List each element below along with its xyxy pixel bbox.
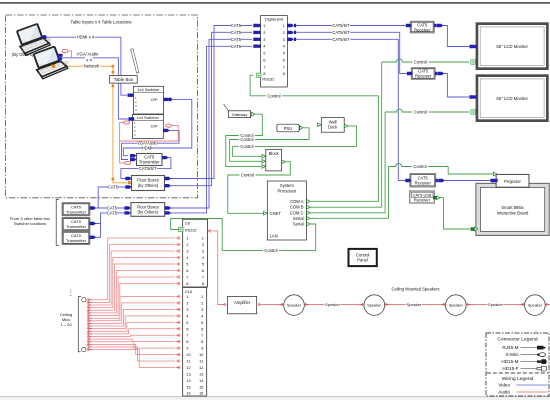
svg-text:System: System — [280, 183, 294, 188]
audio DSP C8 — [183, 219, 208, 287]
svg-text:13: 13 — [199, 371, 204, 376]
svg-text:10: 10 — [199, 352, 204, 357]
wall dock — [321, 118, 344, 133]
wire VGA/Audio x 4 (laptop 2 to switcher 2) — [63, 52, 129, 119]
svg-text:CAT5: CAT5 — [231, 44, 242, 49]
wire ceiling mic 3 — [87, 251, 175, 307]
svg-text:HDMI: HDMI — [142, 146, 153, 151]
svg-text:RS232: RS232 — [262, 77, 274, 82]
svg-text:Receiver: Receiver — [414, 198, 431, 203]
wire speaker 4 stub — [545, 304, 549, 306]
svg-text:Interactive Board: Interactive Board — [497, 210, 529, 215]
connector: monitor 1 video in — [469, 45, 475, 48]
wire switcher2 audio out (red) — [120, 126, 179, 141]
CAT5 transmitter T2 — [62, 218, 89, 231]
switcher U1 (1x4 Switcher) — [134, 86, 164, 114]
svg-text:Network: Network — [84, 64, 100, 69]
svg-text:C8: C8 — [185, 221, 191, 226]
svg-text:Table Box: Table Box — [114, 77, 134, 82]
laptop 1 — [14, 20, 53, 56]
svg-text:COM A: COM A — [290, 199, 304, 204]
connector: transmitters T1-T3 out — [90, 206, 96, 209]
label: Ceiling Mics 1-20 — [60, 312, 72, 327]
wire control: COM C to LCD monitor 2 — [310, 109, 469, 213]
wire audio riser to CAT5 transmitter (red) — [120, 123, 125, 164]
svg-text:(by Others): (by Others) — [138, 210, 159, 215]
connector: floor box 2 right — [165, 206, 171, 209]
connector: projector video in — [490, 179, 496, 182]
svg-text:Speaker: Speaker — [449, 304, 464, 308]
connector: processor COM/serial pins (green) — [307, 199, 310, 226]
wire floor box 2 out A to matrix in 3 — [168, 37, 252, 208]
wire control: Serial 2 to C8 RS232 — [171, 219, 316, 253]
svg-text:HD15-M: HD15-M — [501, 359, 518, 364]
svg-text:COM C: COM C — [290, 210, 304, 215]
wire speaker 3 to speaker 4 — [466, 302, 524, 307]
wire ceiling mic 13 — [87, 322, 175, 333]
svg-text:Floor Boxes: Floor Boxes — [137, 178, 159, 183]
connector: monitor 2 video in — [469, 95, 475, 98]
connector: CAT5 receiver 3 pins — [405, 179, 411, 182]
wire Network (orange, laptop 2 to floor box 1) — [55, 64, 127, 183]
svg-text:Connector Legend: Connector Legend — [497, 337, 538, 343]
svg-text:Audio: Audio — [498, 390, 510, 395]
LCD monitor 2 — [476, 74, 549, 122]
connector: floor box 2 left — [124, 206, 130, 209]
svg-text:Floor Boxes: Floor Boxes — [137, 204, 159, 209]
svg-text:O/P: O/P — [151, 124, 158, 129]
switcher U2 (1x4 Switcher) — [132, 115, 163, 139]
connector: CAT5 transmitter inputs — [130, 154, 136, 157]
connector: laptop2 VGA pair — [58, 54, 63, 60]
wire ceiling mic 2 — [87, 245, 175, 305]
svg-text:Receiver: Receiver — [415, 180, 432, 185]
amplifier — [228, 296, 257, 313]
svg-text:PSU: PSU — [284, 126, 293, 131]
CAT5 transmitter T3 — [62, 232, 89, 245]
svg-text:Control: Control — [356, 252, 370, 257]
CAT5 receiver 2 — [411, 68, 435, 79]
wire switcher1 O/P HDMI down to CAT5 transmitter — [123, 99, 192, 155]
svg-text:CAT5/6/T: CAT5/6/T — [139, 166, 157, 171]
legend divider — [487, 372, 549, 374]
gateway — [224, 104, 251, 118]
svg-text:Receiver: Receiver — [414, 27, 431, 32]
svg-text:CAT5: CAT5 — [107, 210, 118, 215]
mic bracket — [78, 297, 81, 352]
svg-text:Transmitter: Transmitter — [139, 160, 160, 165]
svg-text:CAT5: CAT5 — [108, 185, 119, 190]
matrix switch (Digital 8x8) — [261, 16, 288, 87]
svg-text:CAT5: CAT5 — [231, 30, 242, 35]
bracket for 3 transmitters — [56, 200, 59, 246]
connector: CAT5 transmitter out — [162, 156, 168, 159]
svg-text:Control: Control — [240, 144, 253, 149]
laptop 2 — [31, 43, 71, 80]
legend row HD15-F — [502, 366, 546, 371]
table box — [110, 76, 138, 84]
wire CAT5 receiver 3 to projector (video) — [442, 180, 491, 182]
wire control: matrix RS232 to processor COM A — [250, 75, 378, 201]
svg-text:(By Others): (By Others) — [12, 52, 34, 57]
wire ceiling mic 11 — [87, 309, 175, 327]
window bottom strip — [0, 396, 550, 400]
svg-text:Speaker: Speaker — [287, 304, 302, 308]
wire ceiling mic 17 — [87, 340, 175, 348]
svg-text:Control: Control — [264, 248, 277, 253]
connector: floor box 1 left — [125, 177, 131, 180]
wire control: wall dock loop to block — [233, 126, 357, 156]
svg-text:x 4: x 4 — [86, 57, 92, 62]
svg-text:12: 12 — [186, 365, 191, 370]
wire ceiling mic 18 — [87, 343, 175, 355]
connector: switcher2 VGA in — [128, 117, 134, 120]
svg-text:Transmitter: Transmitter — [66, 209, 87, 214]
svg-text:CNET: CNET — [270, 211, 282, 216]
wire ceiling mic 15 — [87, 335, 175, 338]
connector: floor box 1 right — [165, 177, 171, 180]
CAT5 transmitter T1 — [62, 203, 89, 216]
svg-text:55" LCD Monitor: 55" LCD Monitor — [496, 44, 528, 49]
legend row S-Mini — [505, 352, 545, 357]
svg-text:Control: Control — [414, 110, 427, 115]
svg-text:RS232: RS232 — [185, 228, 197, 232]
wire ceiling mic 1 — [87, 238, 175, 301]
table box callout stick — [131, 49, 139, 73]
smart interactive board — [476, 183, 549, 235]
wire ceiling mic 5 — [87, 264, 175, 312]
wire transmitter T1 to floor box 2 in A — [94, 205, 127, 210]
system processor — [267, 181, 306, 240]
wire ceiling mic 10 — [87, 303, 175, 325]
wire switcher2 O/P VGA/Audio down to CAT5 transmitter — [122, 130, 180, 159]
connector: amplifier in/out (red) — [222, 303, 227, 306]
speaker 1 — [279, 295, 309, 316]
svg-text:Serial: Serial — [293, 216, 304, 221]
connector: laptop1 HDMI — [42, 35, 46, 39]
connector: CAT5 receiver 2 pins — [407, 72, 413, 75]
svg-text:1x4 Switcher: 1x4 Switcher — [137, 115, 160, 120]
svg-text:Speaker: Speaker — [488, 302, 504, 307]
svg-text:15: 15 — [199, 384, 204, 389]
svg-text:CAT5/6/T: CAT5/6/T — [332, 37, 350, 42]
svg-text:CAT5: CAT5 — [231, 37, 242, 42]
connector: PSU out (green) — [300, 126, 303, 130]
svg-text:CAT5/6/T: CAT5/6/T — [332, 30, 350, 35]
svg-text:Control: Control — [241, 173, 254, 178]
wire CAT5 receiver 1 to LCD monitor 1 — [440, 26, 469, 47]
wire CAT5 transmitter out to floor box 1 (CAT5/6/T) — [121, 158, 171, 179]
legend row RJ45-M — [502, 345, 545, 350]
connector: switcher1 out — [164, 98, 170, 101]
wire ceiling mic 8 — [87, 284, 175, 320]
wire ceiling mic 16 — [87, 338, 175, 342]
svg-text:COM B: COM B — [290, 205, 304, 210]
svg-text:Switcher locations: Switcher locations — [14, 221, 46, 226]
wire control: COM B to LCD monitor 1 — [310, 59, 469, 207]
wire laptop 2 audio stub (red) — [62, 49, 71, 57]
wire HDMI x 4 (laptop 1 to switcher 1) — [44, 35, 127, 96]
svg-text:Processor: Processor — [277, 188, 296, 193]
connector: board USB (green) — [471, 227, 475, 231]
svg-text:O/P: O/P — [151, 97, 158, 102]
svg-text:Gateway: Gateway — [232, 112, 248, 117]
svg-text:Receiver: Receiver — [415, 74, 432, 79]
connector: switcher2 audio in (red) — [124, 121, 130, 124]
connector: block out (green) — [282, 160, 285, 164]
svg-text:S-Mini: S-Mini — [505, 352, 518, 357]
connector: block inputs (green) — [262, 154, 265, 158]
speaker 4 — [520, 295, 550, 316]
svg-text:14: 14 — [199, 378, 204, 383]
svg-text:Control: Control — [240, 137, 253, 142]
svg-text:55" LCD Monitor: 55" LCD Monitor — [496, 96, 528, 101]
wire floor box 2 out B to matrix in 4 — [168, 44, 252, 213]
connector: wall dock left (green) — [318, 123, 321, 127]
connector: switcher2 VGA out — [163, 129, 169, 132]
svg-text:Speaker: Speaker — [528, 304, 543, 308]
mic circle bottom — [82, 347, 86, 351]
svg-text:Digital 8x8: Digital 8x8 — [265, 17, 283, 22]
wire ceiling mic 4 — [87, 258, 175, 310]
svg-text:12: 12 — [199, 365, 204, 370]
svg-text:Control: Control — [414, 60, 427, 65]
svg-text:Control: Control — [413, 164, 426, 169]
wire matrix out 2 to CAT5 receiver 2 — [294, 30, 407, 74]
connector: processor CNET (green) — [264, 211, 267, 215]
connector: matrix RS232 (green) — [257, 73, 261, 77]
svg-text:Block: Block — [269, 151, 280, 156]
connector: C8 audio out (red) — [207, 229, 212, 232]
label: From 3 other table box Switcher locations — [10, 216, 50, 226]
svg-text:Table Inputs x 4 Table Locatio: Table Inputs x 4 Table Locations — [70, 19, 131, 24]
wire control: block to processor CNET — [228, 162, 290, 214]
CAT5-USB receiver — [410, 191, 435, 203]
svg-text:Wiring Legend: Wiring Legend — [502, 376, 534, 382]
svg-text:LAN: LAN — [270, 234, 278, 239]
svg-text:14: 14 — [186, 378, 191, 383]
connector: laptop2 network — [52, 65, 55, 68]
control panel — [349, 249, 377, 266]
ellipsis dots — [70, 290, 71, 296]
CAT5 transmitter (table) — [137, 154, 163, 166]
wire transmitter T2 to floor box 2 in B — [94, 210, 127, 223]
svg-text:Projector: Projector — [504, 179, 521, 184]
legend row Audio — [498, 390, 547, 395]
connector: C16 mic pins — [176, 295, 181, 369]
connector: C8 mic pins — [176, 236, 181, 285]
svg-text:Speaker: Speaker — [367, 304, 382, 308]
wire C8 audio out to amplifier (red) — [212, 231, 222, 305]
svg-text:CAT5: CAT5 — [231, 23, 242, 28]
mic circle top — [82, 298, 86, 302]
wire ceiling mic 14 — [87, 329, 175, 336]
wire amplifier to speaker 1 — [262, 304, 284, 306]
svg-text:HD15-F: HD15-F — [502, 366, 518, 371]
legend row HD15-M — [501, 359, 546, 364]
wire transmitter T3 junction riser — [94, 224, 101, 238]
svg-text:Ceiling Mounted Speakers: Ceiling Mounted Speakers — [391, 286, 439, 291]
connector: C8 RS232 green — [179, 227, 183, 231]
wire floor box 1 out A to matrix in 1 — [168, 23, 252, 179]
wire riser junction to floor box 1 in C — [98, 184, 127, 208]
svg-text:Panel: Panel — [357, 258, 368, 263]
connector: switcher1 HDMI in — [128, 94, 134, 97]
wire CAT5 receiver 2 to LCD monitor 2 — [441, 74, 469, 98]
svg-text:Dock: Dock — [328, 125, 338, 130]
connector: switcher2 audio out (red) — [166, 124, 172, 127]
connector: monitor 1 control (green) — [471, 60, 475, 64]
CAT5 receiver 1 — [410, 21, 434, 32]
svg-text:RJ45-M: RJ45-M — [502, 345, 518, 350]
projector — [496, 174, 529, 187]
wire control: gateway loop to block — [226, 114, 262, 166]
svg-text:Serial: Serial — [293, 222, 304, 227]
wire ceiling mic 9 — [87, 297, 175, 323]
svg-text:Transmitter: Transmitter — [66, 224, 87, 229]
wire ceiling mic 6 — [87, 271, 175, 315]
connector: gateway out (green) — [252, 112, 255, 116]
connector: monitor 2 control (green) — [471, 110, 475, 114]
svg-text:(by Others): (by Others) — [138, 183, 159, 188]
svg-text:Control: Control — [267, 93, 280, 98]
svg-text:16: 16 — [186, 391, 191, 396]
svg-text:Smart 885ix: Smart 885ix — [501, 205, 524, 210]
wire control: Serial to projector — [310, 164, 493, 219]
svg-text:Amplifier: Amplifier — [234, 300, 251, 305]
LCD monitor 1 — [476, 22, 549, 70]
wire ceiling mic 19 — [87, 345, 175, 361]
floor box 2 (Floor Boxes by Others) — [131, 203, 165, 217]
speaker 3 — [441, 295, 471, 316]
connector: wall dock out (green) — [344, 124, 347, 128]
floor box 1 (Floor Boxes by Others) — [132, 176, 165, 191]
block (control interface) — [266, 149, 282, 171]
svg-text:13: 13 — [186, 371, 191, 376]
audio DSP C16 — [183, 288, 207, 397]
svg-text:Video: Video — [498, 383, 510, 388]
speaker 2 — [359, 295, 389, 316]
wire control: PSU loop to block — [230, 128, 310, 162]
wire ceiling mic 12 — [87, 316, 175, 330]
connector: matrix inputs 1-4 — [253, 24, 260, 48]
connector: matrix outputs 1-3 — [287, 24, 296, 41]
wire speaker 2 to speaker 3 — [385, 302, 446, 307]
connector: projector control (green) — [493, 172, 496, 176]
svg-text:16: 16 — [199, 391, 204, 396]
table inputs dashed enclosure — [6, 15, 198, 198]
wire ceiling mic 7 — [87, 277, 175, 317]
PSU — [277, 124, 299, 132]
svg-text:CAT5/6/T: CAT5/6/T — [332, 23, 350, 28]
wire CAT5-USB receiver to interactive board (green) — [439, 198, 471, 229]
CAT5 receiver 3 — [410, 174, 436, 187]
window top bar — [0, 2, 550, 4]
legend box — [486, 333, 549, 396]
svg-text:10: 10 — [186, 352, 191, 357]
wire speaker 1 to speaker 2 — [305, 302, 364, 307]
svg-text:Transmitter: Transmitter — [66, 238, 87, 243]
svg-text:1 – 20: 1 – 20 — [60, 322, 72, 327]
wire matrix out 1 to CAT5 receiver 1 — [294, 23, 406, 28]
svg-text:Speaker: Speaker — [325, 302, 341, 307]
connector: CAT5-USB receiver out (green) — [433, 196, 436, 199]
connector: CAT5 receiver 1 pins — [406, 24, 412, 27]
wire floor box 1 out B to matrix in 2 — [168, 30, 252, 186]
svg-text:HDMI x 4: HDMI x 4 — [77, 35, 95, 40]
legend row Video — [498, 383, 547, 388]
wire matrix out 3 to CAT5 receiver 3 — [294, 37, 406, 181]
wire ceiling mic 20 — [87, 348, 175, 367]
svg-text:VGA/ Audio: VGA/ Audio — [77, 52, 99, 57]
svg-text:15: 15 — [186, 384, 191, 389]
svg-text:1x4 Switcher: 1x4 Switcher — [137, 87, 160, 92]
svg-text:Speaker: Speaker — [407, 302, 423, 307]
